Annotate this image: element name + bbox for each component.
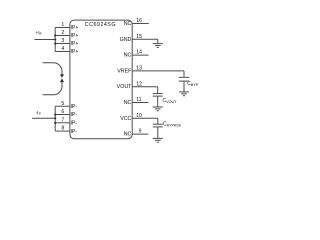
- svg-text:16: 16: [136, 18, 142, 24]
- svg-text:IP-: IP-: [71, 104, 78, 110]
- svg-text:IP+: IP+: [71, 49, 79, 55]
- svg-text:5: 5: [61, 101, 64, 107]
- svg-text:4: 4: [61, 46, 64, 52]
- svg-text:15: 15: [136, 34, 142, 40]
- svg-text:8: 8: [61, 126, 64, 132]
- svg-text:10: 10: [136, 113, 142, 119]
- svg-text:VREF: VREF: [117, 68, 132, 74]
- svg-text:IP-: IP-: [71, 112, 78, 118]
- svg-text:NC: NC: [124, 53, 132, 59]
- svg-text:11: 11: [136, 97, 141, 103]
- svg-text:3: 3: [61, 38, 64, 44]
- svg-text:VCC: VCC: [120, 116, 131, 122]
- svg-text:12: 12: [136, 81, 142, 87]
- svg-text:CBYP: CBYP: [187, 81, 199, 87]
- svg-text:9: 9: [139, 129, 142, 135]
- svg-text:CVOUT: CVOUT: [163, 98, 178, 104]
- svg-text:IP+: IP+: [71, 41, 79, 47]
- svg-text:-IP: -IP: [36, 110, 42, 116]
- svg-text:6: 6: [61, 109, 64, 115]
- svg-text:1: 1: [61, 22, 64, 28]
- svg-text:13: 13: [136, 66, 142, 72]
- svg-text:2: 2: [61, 30, 64, 36]
- svg-text:NC: NC: [124, 100, 132, 106]
- svg-text:7: 7: [61, 117, 64, 123]
- svg-text:CBYPASS: CBYPASS: [163, 121, 182, 127]
- svg-text:14: 14: [136, 50, 142, 56]
- svg-text:IP-: IP-: [71, 129, 78, 135]
- svg-text:GND: GND: [120, 37, 132, 43]
- svg-text:VOUT: VOUT: [117, 84, 132, 90]
- svg-text:IP-: IP-: [71, 121, 78, 127]
- svg-text:NC: NC: [124, 132, 132, 138]
- svg-text:IP+: IP+: [71, 33, 79, 39]
- svg-text:IP+: IP+: [71, 25, 79, 31]
- svg-text:+IP: +IP: [35, 30, 42, 36]
- svg-text:NC: NC: [124, 21, 132, 27]
- svg-text:CC6924SG: CC6924SG: [85, 22, 116, 28]
